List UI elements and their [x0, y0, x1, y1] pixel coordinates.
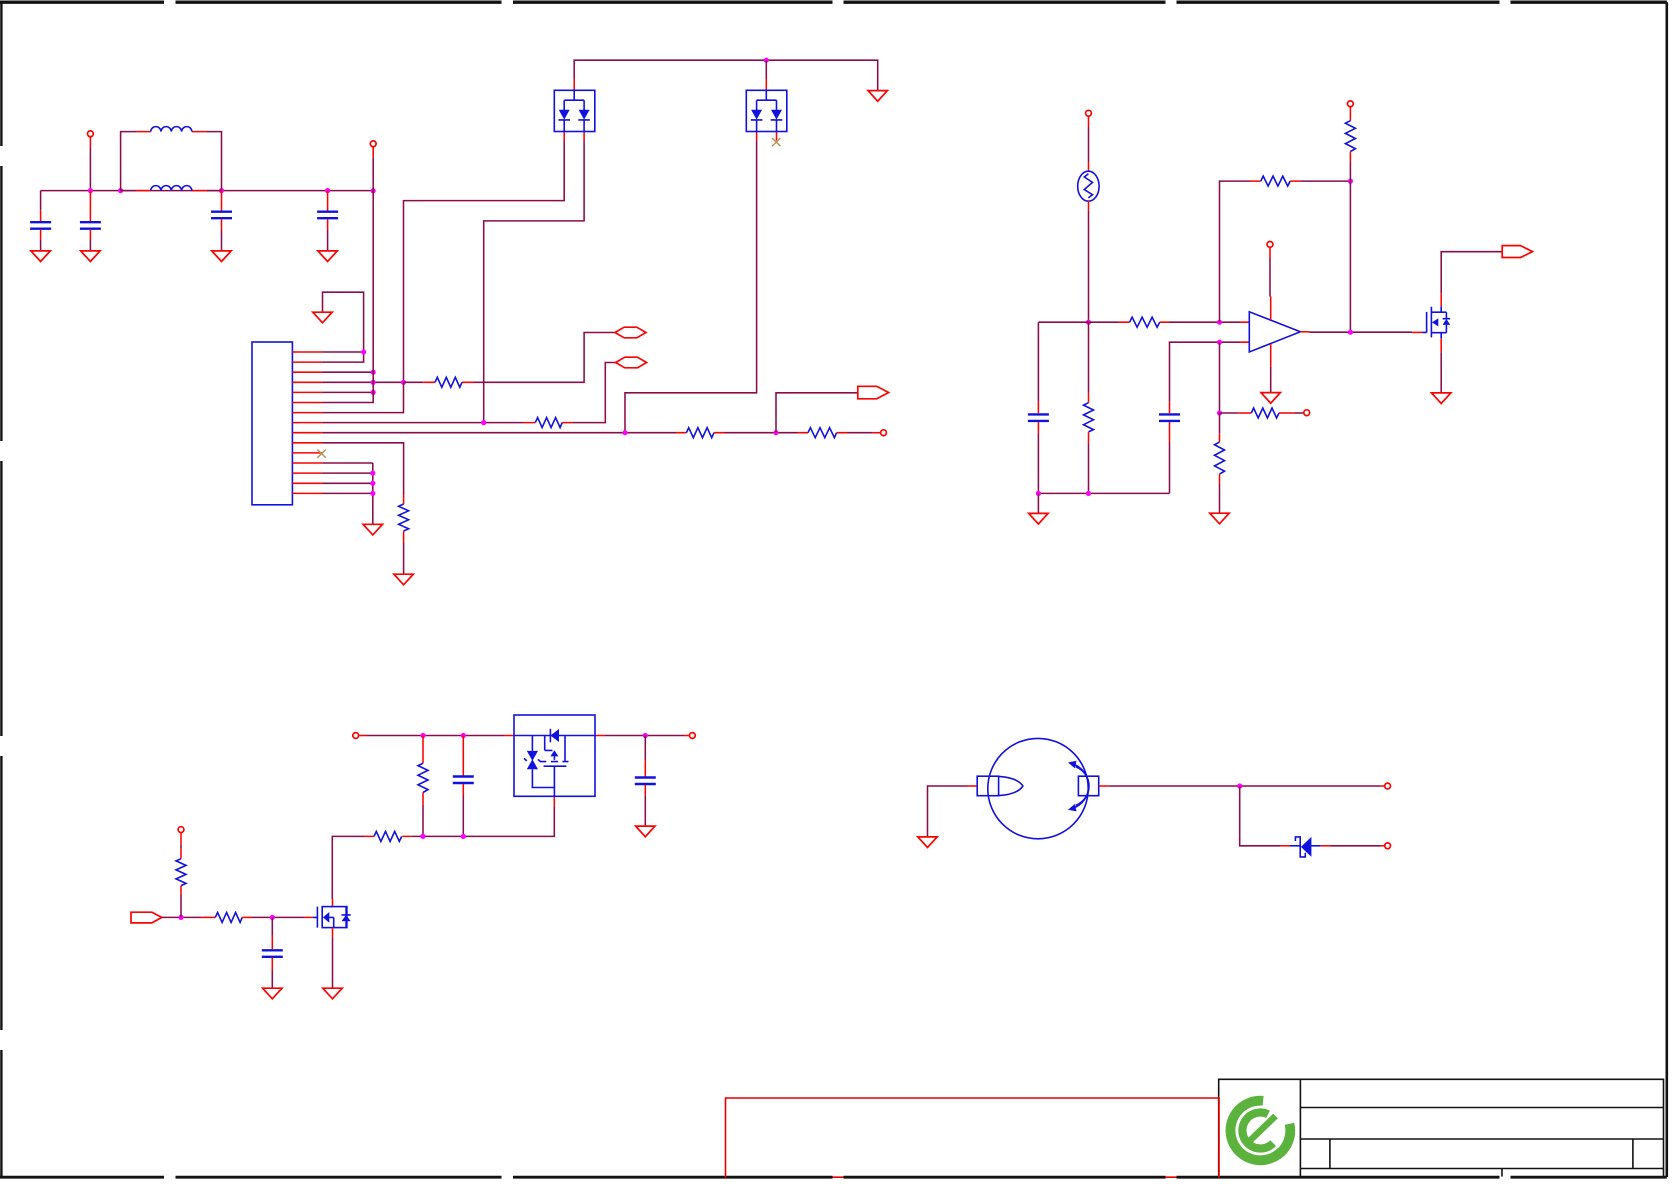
company logo [1230, 1101, 1290, 1161]
wire row E to port [848, 432, 873, 434]
title block outer frame [1219, 1079, 1664, 1176]
wire row D to port [573, 363, 616, 423]
wire zener branch [1240, 786, 1281, 846]
resistor R1 [524, 422, 574, 424]
wire port3 riser [776, 393, 858, 433]
node ground bus junction 2 [1086, 491, 1091, 496]
ground GND14 [323, 988, 342, 999]
wire zener to port [1331, 845, 1381, 847]
sheet border bottom edge [0, 1176, 1667, 1179]
node A junction [401, 380, 406, 385]
node thermistor junction [1086, 320, 1091, 325]
title block cell divider b [1632, 1139, 1634, 1169]
resistor R2 [676, 432, 725, 434]
node output junction [643, 733, 648, 738]
resistor R8 pullup [1349, 107, 1351, 121]
port tag CTRL [131, 912, 162, 923]
wire pullup to junction [1349, 162, 1351, 182]
wire output riser [1349, 181, 1351, 332]
wire row E mid [725, 432, 798, 434]
port P1 [88, 131, 94, 137]
ground GND13 [636, 826, 655, 837]
thermistor RT1 [1078, 171, 1099, 201]
wire row A resistor feed [404, 381, 424, 383]
node rail junction R12 [420, 733, 425, 738]
wire R11 to ground [1219, 413, 1221, 513]
ground GND3 [212, 251, 231, 262]
wire pin5 [322, 391, 373, 393]
wire U1 V- to ground [1270, 344, 1272, 367]
motor M1 left terminal [977, 776, 998, 796]
capacitor C2 [89, 191, 91, 222]
zener D4 [1281, 845, 1290, 847]
ground GND6 [313, 312, 332, 323]
wire D1 left pin to node A [404, 141, 565, 383]
port PORT2 [616, 357, 647, 368]
wire pin10 to R4 [322, 443, 403, 494]
resistor R5 [423, 381, 474, 383]
port P3 [881, 430, 887, 436]
node bus junction 2 [118, 188, 123, 193]
resistor R3 [798, 432, 848, 434]
ground GND1 [31, 251, 50, 262]
node pin1 junction [361, 349, 366, 354]
diode body D3 [549, 729, 551, 743]
node feedback junction [1348, 179, 1353, 184]
title block logo cell divider [1299, 1079, 1301, 1176]
port PORT3 [858, 386, 889, 399]
title block row line 3 [1300, 1168, 1663, 1170]
ground GND15 [263, 988, 282, 999]
transistor Q2 [304, 899, 333, 917]
wire pin12 [322, 462, 372, 464]
port P5 [1348, 101, 1354, 107]
sheet border top edge [0, 1, 1667, 4]
wire U1 V+ [1269, 248, 1271, 258]
ground GND10 [1210, 513, 1229, 524]
capacitor C1 [40, 191, 42, 211]
node row E junction 2 [773, 430, 778, 435]
wire U2 gate pin down [412, 807, 555, 837]
wire CTRL to gate node [162, 916, 202, 918]
wire P4 to thermistor [1088, 116, 1090, 127]
wire ground stub [1037, 493, 1039, 513]
wire R4 to ground [403, 543, 405, 574]
capacitor C9 [271, 917, 273, 935]
wire pin8 row D [322, 422, 523, 424]
wire pin15 [322, 492, 372, 494]
motor M1 right terminal [1078, 776, 1098, 796]
no-connect X on D2 pin [772, 138, 781, 146]
op-amp U1 [1240, 322, 1249, 342]
resistor R15 [202, 916, 216, 918]
ground GND4 [318, 251, 337, 262]
node bus junction 1 [88, 188, 93, 193]
wire Q1 source to ground [1440, 338, 1442, 352]
node bus junction 3 [219, 188, 224, 193]
port P10 [178, 827, 184, 833]
node -in junction [1217, 340, 1222, 345]
connector J1 pin stubs [292, 352, 322, 493]
wire U1 output [1300, 331, 1309, 333]
ground GND2 [81, 251, 100, 262]
no-connect X on pin11 [317, 450, 326, 458]
capacitor C5 [1037, 322, 1039, 401]
ground GND11 [1261, 393, 1280, 404]
node pin3 junction [371, 370, 376, 375]
wire main filter bus [41, 190, 374, 192]
resistor R11 [1219, 434, 1221, 442]
node top rail junction [764, 58, 769, 63]
port P9 [690, 733, 696, 739]
wire pins1-2 ground loop [323, 292, 364, 352]
wire D2 left pin to row E [625, 141, 757, 433]
resistor R13 [365, 835, 412, 837]
capacitor C8 [644, 736, 646, 761]
ground GND5 [868, 91, 887, 102]
node row D junction [481, 420, 486, 425]
wire top rail [574, 60, 878, 90]
port P2 [370, 141, 376, 147]
wire pin7 [322, 382, 403, 412]
port ALERT [1502, 246, 1532, 258]
capacitor C6 [1169, 442, 1171, 493]
wire pins12-15 ground bus [372, 463, 374, 524]
resistor R12 [422, 736, 424, 764]
wire R15 to Q2 gate [252, 916, 304, 918]
resistor R4 [399, 504, 409, 531]
resistor R14 pullup [180, 833, 182, 845]
wire pin4 [322, 381, 403, 383]
port PORT1 [615, 327, 646, 338]
node pin14 junction [370, 481, 375, 486]
node output junction [1348, 330, 1353, 335]
node row E junction 1 [622, 430, 627, 435]
resistor R6 [1119, 321, 1170, 323]
ground GND9 [1029, 513, 1048, 524]
port P11 [1381, 785, 1385, 787]
capacitor C7 [462, 736, 464, 776]
node bus junction 4 [325, 188, 330, 193]
port P4 [1086, 110, 1092, 116]
wire inductor loop right riser [207, 132, 222, 191]
node ground bus junction 1 [1036, 491, 1041, 496]
node row junction C7 [461, 834, 466, 839]
wire C7 to node row [462, 796, 464, 837]
ground GND8 [363, 524, 382, 535]
ground GND7 [394, 574, 413, 585]
title block cell divider c [1501, 1169, 1503, 1177]
node +in junction [1217, 320, 1222, 325]
wire inductor loop left riser [121, 132, 136, 191]
inductor L2 [121, 190, 222, 192]
wire pin9 row E [322, 432, 676, 434]
resistor R9 [1088, 393, 1090, 403]
wire pin6 with port riser [322, 191, 373, 403]
title block cell divider a [1329, 1139, 1331, 1169]
node pin13 junction [370, 471, 375, 476]
inductor L1 [136, 131, 207, 133]
node pin15 junction [370, 491, 375, 496]
transistor Q1 [1422, 312, 1427, 333]
load switch U2 package [504, 736, 605, 807]
wire pin1 [322, 351, 363, 353]
capacitor C3 [221, 191, 223, 211]
wire -in divider riser [1219, 342, 1221, 413]
wire U2 output [605, 735, 684, 737]
sheet border left edge gaps [0, 2, 2, 1177]
wire feedback riser [1220, 181, 1251, 322]
node gate pull junction [178, 915, 183, 920]
wire D2 top riser [765, 60, 767, 79]
zener TVS internals [527, 751, 538, 761]
wire +in row [1038, 321, 1240, 323]
port P12 [1381, 845, 1385, 847]
wire R9 lower [1088, 322, 1090, 493]
wire P1 riser [89, 137, 91, 148]
wire feedback to output node [1300, 180, 1350, 182]
diode pair D1 [564, 79, 584, 141]
wire input rail [359, 735, 367, 737]
port P8 [353, 733, 359, 739]
wire analog ground bus [1038, 492, 1169, 494]
port P7 [1267, 242, 1273, 248]
node bus junction 5 [371, 188, 376, 193]
port P6 [1304, 410, 1310, 416]
node pin4 junction [371, 380, 376, 385]
notes box red rectangle [726, 1098, 1220, 1178]
wire P2 riser [372, 147, 374, 158]
connector J1 body [252, 342, 292, 505]
ground GND12 [1432, 393, 1451, 404]
node motor junction [1237, 783, 1242, 788]
wire pin2 [322, 352, 363, 362]
wire motor right [1099, 785, 1109, 787]
wire row A to port1 [474, 333, 615, 383]
wire thermistor to +in row [1088, 201, 1090, 210]
node gate cap junction [270, 915, 275, 920]
wire pin14 [322, 482, 372, 484]
wire D1 right pin to row D [484, 141, 584, 423]
node divider junction [1217, 410, 1222, 415]
motor M1 cone [999, 776, 1023, 795]
wire pin13 [322, 472, 372, 474]
transistor Q3 internals [545, 736, 565, 761]
node row junction R12 [420, 834, 425, 839]
capacitor C4 [327, 191, 329, 211]
wire R12 to node row [422, 805, 424, 837]
resistor R10 [1220, 412, 1239, 414]
motor M1 body [988, 738, 1088, 838]
node pin5 junction [371, 390, 376, 395]
wire node row to Q2 drain [332, 836, 364, 899]
diode pair D2 [757, 79, 777, 141]
wire motor left to ground [967, 785, 978, 787]
sheet border right edge [1666, 2, 1669, 1177]
ground GND16 [918, 837, 937, 848]
node rail junction C7 [461, 733, 466, 738]
wire pin3 [322, 371, 373, 373]
motor M1 rotation arrows [1073, 764, 1089, 808]
title block row line 1 [1300, 1107, 1663, 1109]
wire Q1 drain to port [1440, 294, 1442, 307]
wire Q2 source to ground [332, 928, 334, 938]
resistor R7 feedback [1250, 180, 1300, 182]
transistor Q1 gate stub [1412, 331, 1422, 333]
title block row line 2 [1300, 1138, 1663, 1140]
